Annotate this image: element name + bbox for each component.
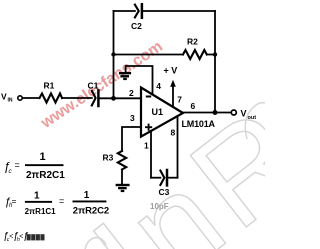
svg-text:3: 3 <box>130 113 135 123</box>
svg-text:1: 1 <box>84 190 90 201</box>
svg-text:C3: C3 <box>159 187 170 197</box>
svg-text:LM101A: LM101A <box>182 119 216 129</box>
op-amp minus input sign <box>146 96 151 98</box>
svg-text:R2: R2 <box>187 37 198 47</box>
capacitor C1 <box>92 91 96 106</box>
svg-text:2πR2C2: 2πR2C2 <box>73 205 109 216</box>
resistor R3 <box>118 151 126 170</box>
svg-text:out: out <box>248 115 257 121</box>
op-amp plus input sign <box>145 124 152 131</box>
grey watermark big outline letters <box>67 77 320 249</box>
formula fc < fh < f(unity gain) <box>3 231 45 243</box>
svg-text:1: 1 <box>144 141 149 151</box>
svg-text:IN: IN <box>8 98 13 104</box>
wire: C1 to op-amp pin 2 <box>100 97 141 99</box>
terminal Vin open circle <box>18 96 22 100</box>
capacitor C3 <box>160 171 164 185</box>
wire: pin 8 down <box>177 116 179 177</box>
svg-text:=: = <box>15 160 20 170</box>
svg-text:U1: U1 <box>152 107 164 117</box>
svg-text:=: = <box>12 196 17 206</box>
ground below R3 <box>116 185 130 191</box>
wire: top wire left of C2 <box>114 10 135 12</box>
wire: bottom compensation left segment <box>151 177 160 179</box>
terminal Vout open circle <box>231 110 236 115</box>
svg-text:c: c <box>9 168 13 175</box>
wire: output from apex to Vout terminal <box>183 112 231 114</box>
wire: left vertical feedback branch <box>113 11 115 98</box>
wire: R3 to ground <box>121 170 123 185</box>
node: junction dot R2 right <box>213 52 217 56</box>
svg-text:2: 2 <box>129 88 134 98</box>
op-amp U1 triangle <box>141 88 183 137</box>
svg-text:+ V: + V <box>164 66 178 76</box>
svg-text:C2: C2 <box>131 21 142 31</box>
svg-text:4: 4 <box>156 81 161 91</box>
svg-text:V: V <box>241 109 247 119</box>
+V arrowhead pin 7 <box>170 80 176 87</box>
svg-text:1: 1 <box>40 151 46 163</box>
wire: pin 7 supply line <box>172 86 174 106</box>
capacitor C2 <box>135 5 139 18</box>
svg-text:=: = <box>59 196 64 206</box>
pink watermark www.elecfans.com <box>37 38 166 132</box>
wire: right vertical from top wire to output node <box>214 11 216 113</box>
node A: junction dot C1 / pin2 / feedback <box>111 96 116 101</box>
wire: op-amp pin 4 up and left to ground <box>126 66 153 95</box>
wire: R2 branch right segment <box>207 54 215 56</box>
svg-text:10pF: 10pF <box>150 202 169 211</box>
resistor R2 <box>183 50 207 59</box>
formula fh = 1/(2piR1C1) = 1/(2piR2C2) <box>5 190 110 217</box>
svg-text:R3: R3 <box>103 153 114 163</box>
wire: bottom compensation right segment <box>168 177 177 179</box>
resistor R1 <box>40 94 63 103</box>
wire: pin 3 to R3 <box>122 127 141 151</box>
node: junction dot R2 left <box>111 52 115 56</box>
wire: pin 1 down <box>150 131 152 178</box>
svg-text:8: 8 <box>171 128 176 138</box>
svg-text:V: V <box>1 92 7 102</box>
svg-text:2πR2C1: 2πR2C1 <box>26 170 65 181</box>
node: junction dot output <box>213 110 218 115</box>
svg-text:C1: C1 <box>88 81 99 91</box>
formula fc = 1/(2piR2C1) <box>4 151 66 181</box>
wire: input from Vin terminal to R1 <box>22 97 39 99</box>
wire: R1 to C1 <box>62 97 92 99</box>
svg-text:R1: R1 <box>44 81 55 91</box>
svg-text:7: 7 <box>177 94 182 104</box>
wire: top wire right of C2 <box>143 10 215 12</box>
wire: R2 branch left segment <box>114 54 184 56</box>
svg-text:1: 1 <box>34 190 40 201</box>
ground near pin 4 <box>119 73 131 79</box>
svg-text:2πR1C1: 2πR1C1 <box>25 207 57 216</box>
svg-text:6: 6 <box>191 101 196 111</box>
